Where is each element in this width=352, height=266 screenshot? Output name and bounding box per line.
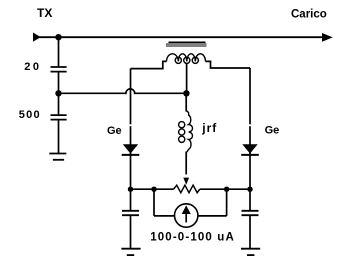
wire left branch vertical upper [130,69,132,125]
wire main line TX to Carico [38,36,323,38]
wire bottom rail right of potentiometer [200,188,250,190]
node G junction rail / right branch [247,187,252,192]
wire transformer right lead (staircase to right branch) [205,61,250,68]
wire meter right stub [198,215,227,217]
wire jrf bottom lead to wiper [185,152,187,175]
capacitor 500 [51,115,67,120]
diode D2 Ge right [241,144,259,155]
diode D1 Ge left [122,144,140,155]
capacitor bottom left [122,211,139,215]
node E junction rail / meter left riser [151,187,156,192]
wire left branch vertical lower [130,126,132,189]
wire jrf top lead [185,93,187,111]
node A junction main line / left column [55,34,61,40]
node C junction center tap / crossover wire [183,90,189,96]
wire bottom rail left of potentiometer [131,188,174,190]
meter M1 body [175,204,198,227]
resistor potentiometer body [174,185,200,193]
wire bottom right cap lead lower [249,216,251,248]
arrow right (output to Carico) [322,33,333,42]
inductor jrf [179,111,193,153]
svg-text:Carico: Carico [291,8,327,20]
wire meter left stub [154,215,175,217]
wire left column middle segment [58,72,60,114]
wire left column upper segment [58,37,60,66]
svg-text:100-0-100 uA: 100-0-100 uA [150,232,235,244]
node B junction left column / crossover wire [55,90,61,96]
wire left column lower segment [58,120,60,153]
arrow potentiometer wiper [183,178,189,185]
wire meter right riser [226,189,228,216]
svg-text:500: 500 [19,109,41,121]
wire crossover from node B to center tap (hops over left branch) [59,89,187,93]
wire center tap down from coil [186,63,188,93]
wire bottom left cap lead upper [130,189,132,210]
arrow meter needle [182,205,191,222]
wire right branch vertical upper [249,68,251,124]
node F junction rail / meter right riser [224,187,229,192]
svg-text:TX: TX [37,6,52,20]
svg-text:Ge: Ge [265,124,280,136]
wire meter left riser [153,189,155,216]
ground bottom right [241,249,260,255]
svg-text:Ge: Ge [107,125,122,137]
transformer T1 core [166,42,206,47]
capacitor bottom right [242,211,259,215]
wire transformer left lead (staircase to left branch) [131,61,167,68]
svg-text:20: 20 [24,61,41,73]
node D junction rail / left branch [128,187,133,192]
wire right branch vertical lower [249,126,251,189]
ground left [49,154,66,160]
arrow left (input from TX) [33,33,41,42]
ground bottom left [121,249,140,255]
svg-text:jrf: jrf [201,121,217,135]
wire bottom right cap lead upper [249,189,251,210]
capacitor 20 [51,67,67,72]
inductor transformer secondary coil [167,54,206,64]
wire bottom left cap lead lower [130,216,132,248]
